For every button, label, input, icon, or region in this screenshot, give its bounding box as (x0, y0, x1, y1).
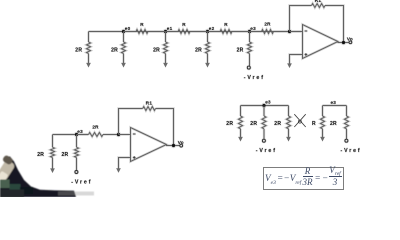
terminal -Vref (circuit A) (262, 139, 265, 142)
node e1 (164, 30, 167, 33)
svg-text:R1: R1 (315, 0, 322, 4)
svg-text:e3: e3 (331, 100, 337, 105)
fraction Vref/3 (327, 166, 343, 177)
wire: top rail of R-2R ladder (89, 31, 303, 33)
svg-text:e3: e3 (265, 100, 271, 105)
resistor R (circuit B) (322, 106, 324, 117)
svg-text:2R: 2R (111, 48, 118, 54)
feedback wire with resistor R1 (top) (290, 6, 312, 32)
svg-text:2R: 2R (250, 121, 257, 127)
resistor 2R at node e3 to -Vref (249, 32, 251, 43)
svg-text:-Vref: -Vref (341, 148, 362, 154)
resistor 2R to -Vref (bottom-left) (76, 135, 78, 148)
svg-text:-Vref: -Vref (71, 180, 92, 186)
svg-text:e3: e3 (77, 129, 83, 134)
svg-text:R1: R1 (146, 100, 153, 106)
formula box: Ve3 = -Vref R/3R = -Vref/3 (263, 167, 344, 190)
resistor R between ladder nodes (166, 31, 179, 33)
svg-text:2R: 2R (274, 121, 281, 127)
junction at U2 inverting input (117, 133, 120, 136)
resistor 2R right (circuit A) (288, 106, 290, 117)
svg-text:-Vref: -Vref (244, 75, 265, 81)
wire: bottom-left input rail (53, 134, 89, 136)
fraction R/3R (301, 167, 314, 176)
svg-text:e1: e1 (167, 26, 173, 31)
feedback wire with resistor R1 (bottom) (119, 109, 143, 135)
svg-text:2R: 2R (195, 48, 202, 54)
svg-text:e0: e0 (125, 26, 131, 31)
equivalence X symbol (294, 114, 305, 127)
svg-text:-Vref: -Vref (256, 148, 277, 154)
node e3 (circuit A) (262, 104, 265, 107)
svg-text:Vo: Vo (347, 37, 353, 42)
svg-text:2R: 2R (75, 48, 82, 54)
svg-text:2R: 2R (153, 48, 160, 54)
wire: equivalent circuit A rail (241, 105, 289, 107)
U2 non-inverting input ground (119, 158, 131, 165)
svg-text:Vo: Vo (178, 140, 184, 145)
svg-text:R: R (182, 22, 186, 27)
op-amp U2 (131, 128, 167, 162)
svg-text:R: R (140, 22, 144, 27)
svg-text:e3: e3 (250, 26, 256, 31)
svg-text:2R: 2R (226, 121, 233, 127)
junction at U1 inverting input (288, 30, 291, 33)
resistor R between ladder nodes (124, 31, 137, 33)
resistor 2R at node e1 (165, 32, 167, 43)
node e0 (122, 30, 125, 33)
node e3 (top ladder) (248, 30, 251, 33)
svg-text:2R: 2R (237, 48, 244, 54)
U1 non-inverting input ground (290, 55, 303, 60)
wire: equivalent circuit B rail (323, 105, 347, 107)
svg-text:e2: e2 (209, 26, 215, 31)
svg-text:R: R (224, 22, 228, 27)
photo fragment in bottom-left corner (0, 154, 94, 197)
terminal -Vref (circuit B) (345, 139, 348, 142)
svg-text:2R: 2R (62, 152, 69, 158)
U1 output wire, node, terminal Vo (338, 42, 349, 44)
svg-text:2R: 2R (330, 121, 337, 127)
resistor 2R at node e2 (207, 32, 209, 43)
svg-text:2R: 2R (92, 125, 99, 130)
resistor 2R left (circuit A) (240, 106, 242, 117)
resistor 2R series to U2 (77, 134, 89, 136)
terminal -Vref (top) (247, 66, 250, 69)
svg-text:2R: 2R (264, 22, 271, 27)
op-amp U1 (303, 25, 339, 59)
resistor R between ladder nodes (208, 31, 221, 33)
resistor 2R middle to -Vref (circuit A) (263, 106, 265, 117)
svg-text:R: R (312, 121, 316, 127)
resistor 2R at node e0 (123, 32, 125, 43)
node e3 (bottom-left) (75, 133, 78, 136)
U2 output wire, node, terminal Vo (166, 145, 180, 147)
resistor 2R to ground (bottom-left) (52, 135, 54, 148)
svg-text:2R: 2R (37, 152, 44, 158)
resistor 2R series to op-amp (250, 31, 262, 33)
terminal -Vref (bottom-left) (75, 171, 78, 174)
resistor 2R (ladder terminator) (88, 32, 90, 43)
resistor 2R to -Vref (circuit B) (346, 106, 348, 117)
node e2 (206, 30, 209, 33)
